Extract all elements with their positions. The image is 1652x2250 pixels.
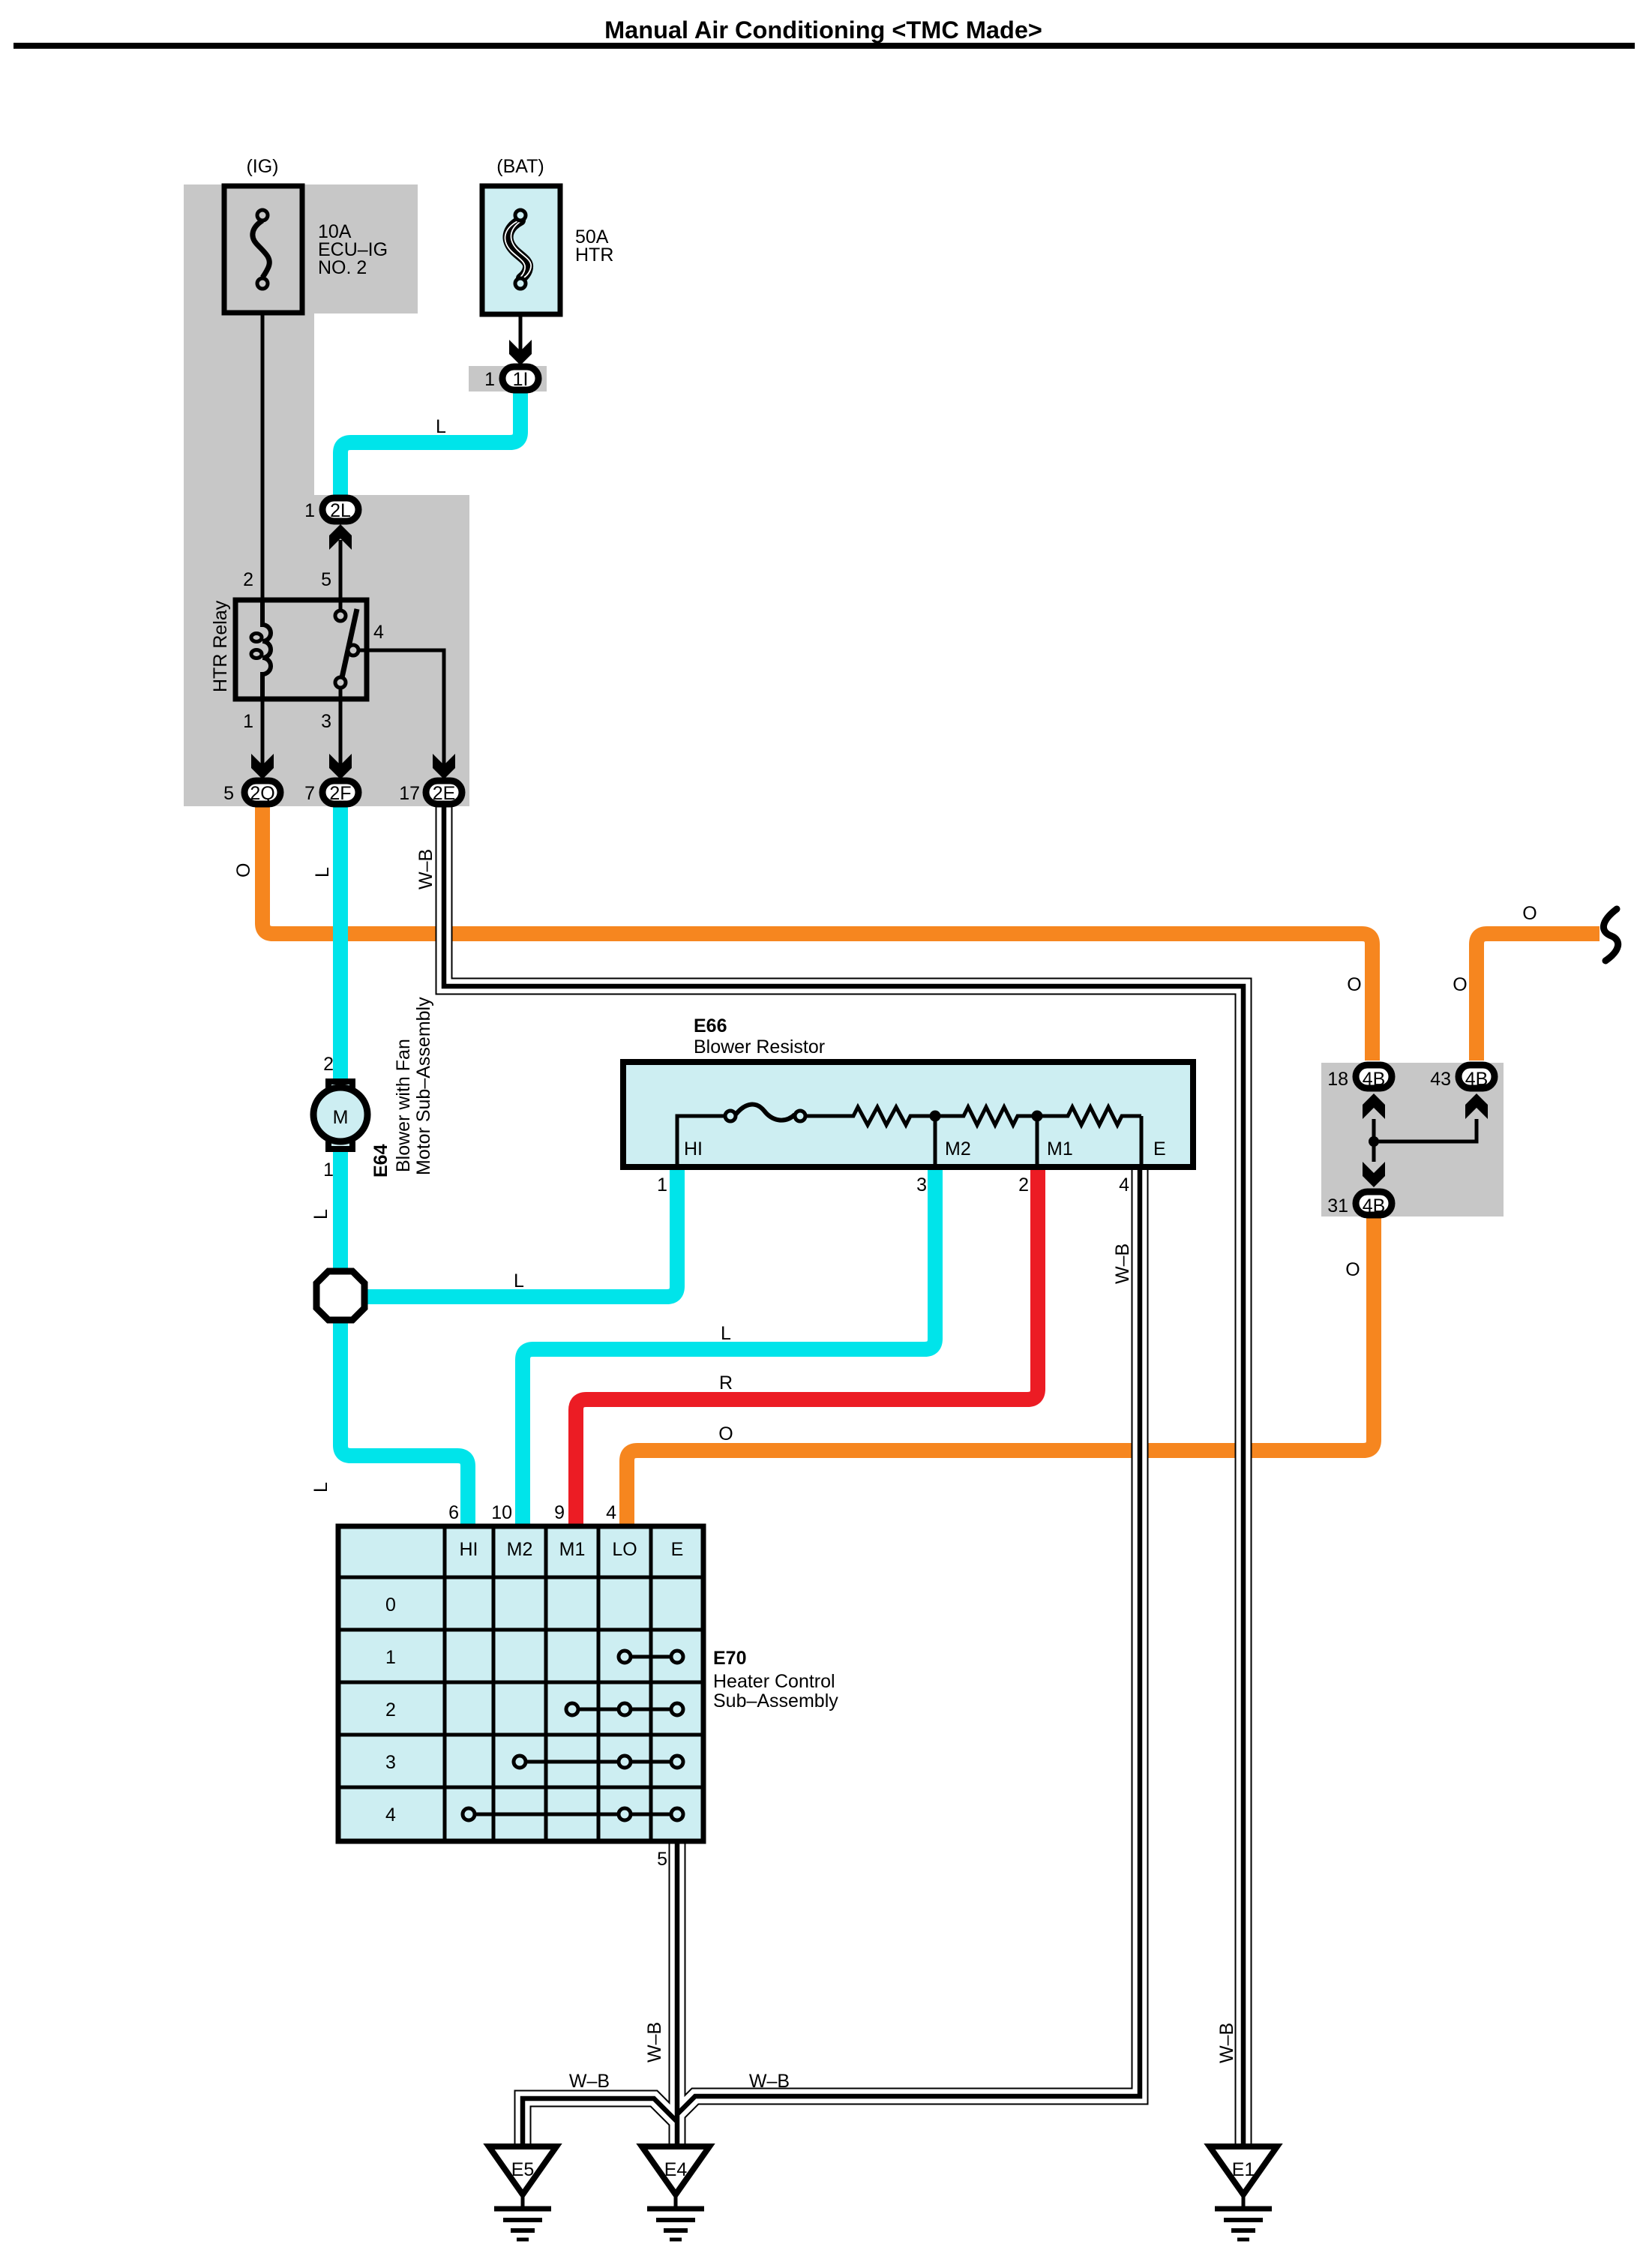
ground E5 [489,2146,556,2239]
svg-text:10: 10 [491,1502,512,1523]
connector arrow into 1I [509,340,532,365]
connector 2L [322,498,358,521]
wire R red from E66 pin 2 (M1) to E70 pin 9 [576,1164,1038,1530]
svg-text:L: L [721,1323,731,1344]
svg-text:M2: M2 [507,1539,533,1560]
svg-text:(IG): (IG) [246,156,278,177]
svg-text:4B: 4B [1363,1069,1386,1090]
svg-text:O: O [233,863,254,877]
svg-text:W–B: W–B [644,2022,665,2062]
svg-text:L: L [436,416,446,437]
svg-text:HI: HI [684,1138,703,1159]
wire break symbol (harness continuation squiggle) [1603,909,1618,961]
svg-text:Sub–Assembly: Sub–Assembly [713,1690,838,1711]
wire black from IG fuse to relay coil pin 2 [261,285,265,600]
svg-text:HTR: HTR [575,244,613,265]
connector arrow up into 4B-18 [1363,1093,1385,1119]
E70 switch row 3 contacts [514,1756,683,1768]
svg-text:M1: M1 [1047,1138,1073,1159]
connector arrow into 2Q [251,754,274,779]
wire L cyan from octagon joint down to E70 pin 6 [340,1322,468,1530]
svg-text:O: O [1522,903,1537,924]
grey block connector 1I [469,366,547,391]
svg-text:W–B: W–B [1216,2023,1237,2063]
svg-text:7: 7 [304,783,315,804]
svg-text:6: 6 [448,1502,459,1523]
wire L cyan from fuse 1I to connector 2L [340,391,520,499]
grey block relay area [184,495,469,806]
svg-text:18: 18 [1327,1069,1348,1090]
connector arrow down into 4B-31 [1363,1162,1385,1187]
svg-text:43: 43 [1430,1069,1451,1090]
svg-text:LO: LO [612,1539,637,1560]
grey block connector 4B [1321,1063,1504,1216]
relay coil [251,600,271,699]
svg-text:L: L [514,1270,524,1291]
svg-text:M1: M1 [559,1539,586,1560]
svg-text:E1: E1 [1232,2159,1255,2180]
motor E64 blower with fan [313,1081,367,1149]
svg-text:R: R [719,1372,733,1393]
wire L cyan from octagon joint right to E66 pin 1 (HI) [366,1165,677,1297]
svg-text:W–B: W–B [415,849,436,889]
wire black relay pin 4 to 2E arrow [358,650,444,765]
svg-text:L: L [310,1209,331,1219]
wire O orange from 2Q to connector 4B-18 [262,802,1372,1060]
svg-text:M: M [333,1107,349,1128]
connector 2F [322,781,358,804]
grey column under IG fuse [184,310,314,498]
wire L cyan from motor pin 1 to octagon joint [333,1150,348,1269]
svg-text:2: 2 [243,569,253,590]
wire black relay pin 1 to 2Q arrow [261,699,265,765]
4B junction wiring [1369,1119,1477,1162]
svg-text:O: O [1347,974,1361,995]
E70 switch row 1 contacts [619,1651,683,1663]
svg-text:2: 2 [385,1699,396,1720]
svg-text:Blower with Fan: Blower with Fan [393,1039,414,1172]
svg-text:9: 9 [554,1502,565,1523]
svg-text:3: 3 [321,711,331,732]
connector arrow into 2F [329,754,352,779]
wire W-B from 2E to ground E1 (white band) [444,804,1243,2145]
wire O orange from 4B-31 down then left to E70 pin 4 [627,1217,1374,1530]
svg-text:17: 17 [399,783,420,804]
svg-text:E4: E4 [664,2159,688,2180]
svg-text:1: 1 [385,1647,396,1668]
svg-text:3: 3 [916,1174,927,1195]
wire black from BAT fuse to 1I arrow [519,285,523,351]
wire W-B from E70 pin 5 to ground E4 [669,1839,686,2145]
svg-text:E70: E70 [713,1648,746,1669]
svg-text:O: O [1453,974,1467,995]
svg-text:31: 31 [1327,1195,1348,1216]
svg-text:Motor Sub–Assembly: Motor Sub–Assembly [413,997,434,1175]
svg-text:1I: 1I [513,369,529,390]
fuse ECU-IG NO.2 (IG) box [224,186,302,313]
E70 heater control box [338,1526,703,1841]
svg-text:2Q: 2Q [250,783,274,804]
svg-text:5: 5 [223,783,234,804]
wire W-B from E66 pin 4 (E) down-left to ground junction [1139,1167,1143,1171]
svg-text:2L: 2L [330,500,351,521]
relay HTR Relay box [235,600,367,699]
wire W-B branch to ground E5 [523,2098,676,2145]
svg-text:4: 4 [385,1804,396,1825]
svg-text:HTR Relay: HTR Relay [210,600,231,692]
svg-text:5: 5 [657,1849,667,1870]
svg-text:1: 1 [304,500,315,521]
connector 2E [426,781,462,804]
svg-text:W–B: W–B [749,2071,790,2092]
wire L cyan from E66 pin 3 (M2) to E70 pin 10 [523,1164,935,1530]
connector 4B (31) [1356,1192,1392,1215]
wire L cyan from 2F down to blower motor pin 2 [333,804,348,1080]
connector arrow into 2E [433,754,455,779]
wire O orange from 4B-43 up and right to break [1477,934,1600,1060]
svg-text:4: 4 [606,1502,616,1523]
wire black relay pin 3 to 2F arrow [339,687,343,765]
E66 blower resistor box [623,1062,1193,1167]
svg-text:4B: 4B [1363,1195,1386,1216]
svg-text:5: 5 [321,569,331,590]
wire black from 2L arrow to relay pin 5 [339,540,343,612]
svg-text:M2: M2 [945,1138,971,1159]
connector 4B (18) [1356,1065,1392,1088]
ground E4 [642,2146,709,2239]
connector arrow up into 4B-43 [1465,1093,1488,1119]
svg-text:1: 1 [243,711,253,732]
svg-text:HI: HI [460,1539,478,1560]
svg-text:E5: E5 [511,2159,535,2180]
svg-text:4: 4 [373,622,384,643]
svg-text:3: 3 [385,1752,396,1773]
svg-text:W–B: W–B [569,2071,610,2092]
svg-text:1: 1 [657,1174,667,1195]
ground E1 [1210,2146,1277,2239]
svg-text:1: 1 [484,369,495,390]
svg-text:4B: 4B [1465,1069,1489,1090]
header rule [13,43,1635,49]
grey block junction-block upper (IG area) [184,184,418,313]
svg-text:Blower Resistor: Blower Resistor [694,1036,825,1057]
svg-text:0: 0 [385,1594,396,1615]
octagon splice joint [316,1271,364,1320]
svg-text:E: E [671,1539,684,1560]
svg-text:(BAT): (BAT) [496,156,544,177]
connector arrow into 2L (pointing up) [329,524,352,550]
svg-text:2F: 2F [329,783,351,804]
svg-text:NO. 2: NO. 2 [318,257,367,278]
svg-text:E66: E66 [694,1015,727,1036]
svg-text:L: L [310,1482,331,1492]
svg-text:Heater Control: Heater Control [713,1671,835,1692]
svg-text:O: O [1345,1259,1360,1280]
connector 1I [502,367,538,390]
connector 4B (43) [1459,1065,1495,1088]
svg-text:1: 1 [323,1159,334,1180]
svg-text:W–B: W–B [1112,1243,1133,1284]
svg-text:2: 2 [323,1054,334,1075]
svg-text:O: O [718,1423,733,1444]
svg-text:E: E [1153,1138,1166,1159]
E70 switch row 4 contacts [463,1808,683,1820]
E70 switch row 2 contacts [566,1703,683,1715]
relay switch blade and contacts [335,600,358,688]
svg-text:L: L [312,867,333,877]
svg-text:2E: 2E [433,783,456,804]
svg-text:E64: E64 [370,1144,391,1177]
fusible link HTR (BAT) box [482,186,560,314]
svg-text:Manual Air Conditioning <TMC M: Manual Air Conditioning <TMC Made> [604,16,1042,43]
connector 2Q [244,781,280,804]
svg-text:4: 4 [1119,1174,1129,1195]
svg-text:2: 2 [1018,1174,1029,1195]
